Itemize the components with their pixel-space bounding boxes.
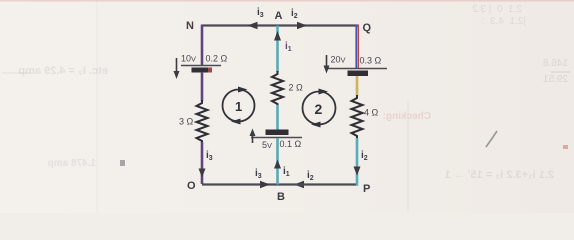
battery E2 polarity arrow [324, 55, 330, 74]
wire middle branch lower [276, 138, 279, 185]
svg-text:1.478 amp: 1.478 amp [48, 158, 96, 169]
current arrow i2 right branch [354, 167, 361, 176]
battery E3 polarity arrow [250, 129, 256, 144]
wire top N to A [202, 24, 278, 26]
svg-text:2 Ω: 2 Ω [289, 83, 304, 93]
resistor 4 ohm [352, 95, 363, 139]
current arrow i2 bottom wire [294, 181, 304, 189]
svg-text:0.2 Ω: 0.2 Ω [206, 54, 228, 64]
svg-text:|2.1 4.3 :: |2.1 4.3 : [482, 16, 526, 27]
resistor 3 ohm [197, 100, 208, 143]
svg-text:A: A [275, 10, 283, 22]
wire left branch upper [201, 25, 204, 67]
wire right branch lower [356, 138, 357, 185]
current arrow i3 on top wire [248, 22, 258, 30]
svg-text:10V: 10V [181, 54, 196, 64]
svg-text:2.1 i₁+3.2 i₂ = 15′ → 1: 2.1 i₁+3.2 i₂ = 15′ → 1 [445, 169, 554, 181]
wire middle branch upper [276, 26, 279, 73]
battery E1 polarity arrow [174, 58, 180, 79]
current arrow i2 on top wire [297, 22, 307, 30]
current arrow i1 middle lower [274, 160, 281, 169]
svg-text:Q: Q [363, 22, 372, 34]
svg-text:3 Ω: 3 Ω [179, 117, 194, 127]
loop 1 indicator [223, 87, 255, 125]
svg-text:0.3 Ω: 0.3 Ω [360, 56, 382, 66]
svg-text:5V: 5V [262, 140, 272, 150]
svg-text:2.1 0 | 3.2: 2.1 0 | 3.2 [472, 4, 522, 15]
wire right branch upper [356, 25, 358, 69]
loop 2 indicator [303, 89, 336, 128]
battery E2 plates (20V) [328, 69, 387, 77]
battery E1 plates (10V) [181, 66, 221, 73]
resistor 2 ohm [272, 71, 283, 106]
wire left branch mid [201, 72, 204, 101]
svg-text:20V: 20V [331, 55, 346, 65]
wire middle branch mid [276, 105, 279, 131]
svg-text:4 Ω: 4 Ω [364, 108, 379, 118]
svg-text:N: N [186, 20, 194, 32]
wire right branch mid [356, 76, 359, 96]
current arrow i3 bottom wire [260, 181, 270, 189]
wire bottom B to P [278, 183, 357, 185]
battery E3 plates (5V) [251, 130, 302, 138]
current arrow i1 middle upper [274, 31, 281, 41]
svg-text:P: P [363, 183, 370, 195]
wire bottom O to B [202, 183, 278, 185]
svg-text:1: 1 [235, 99, 242, 114]
svg-text:146.8: 146.8 [543, 58, 568, 69]
svg-text:B: B [277, 191, 285, 203]
current arrow i3 left branch [199, 169, 206, 178]
svg-text:etc. i₂ = 4.29 amp: etc. i₂ = 4.29 amp [18, 65, 108, 77]
svg-text:O: O [187, 180, 196, 192]
wire left branch lower [201, 142, 204, 184]
svg-text:2: 2 [315, 101, 323, 117]
svg-text:29.51: 29.51 [543, 74, 568, 85]
wire top A to Q [278, 24, 358, 26]
svg-text:0.1 Ω: 0.1 Ω [280, 139, 302, 149]
svg-text:Checking:: Checking: [383, 111, 431, 122]
bleed-through text (decorative) [2, 4, 570, 181]
